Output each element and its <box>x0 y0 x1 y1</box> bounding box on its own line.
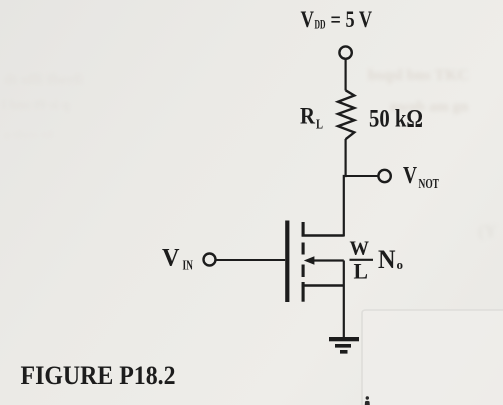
label VNOT <box>403 162 439 192</box>
wire source to ground <box>343 261 345 338</box>
transistor Q1 body arrow <box>304 256 344 264</box>
svg-text:L: L <box>316 118 323 133</box>
svg-text:IN: IN <box>183 258 194 273</box>
svg-text:R: R <box>300 104 315 129</box>
wire VDD terminal to resistor <box>345 59 347 91</box>
ground <box>329 337 359 354</box>
svg-text:l bns t9 si q: l bns t9 si q <box>2 98 70 113</box>
transistor Q1 channel dashes <box>302 222 305 302</box>
label W/L fraction <box>350 238 374 284</box>
svg-text:bsqsl bns TKC: bsqsl bns TKC <box>368 67 469 84</box>
svg-text:L: L <box>354 259 369 284</box>
svg-text:a shew ed: a shew ed <box>4 127 54 141</box>
svg-text:50 kΩ: 50 kΩ <box>369 106 423 133</box>
label VDD = 5 V <box>301 7 373 32</box>
svg-text:FIGURE P18.2: FIGURE P18.2 <box>21 361 176 390</box>
ghost bleed-through text left margin <box>2 72 83 141</box>
stray ink mark bottom <box>365 396 370 405</box>
resistor RL zigzag <box>338 90 354 139</box>
svg-text:= 5 V: = 5 V <box>331 7 373 32</box>
svg-text:(Y: (Y <box>478 221 497 242</box>
svg-text:dt offi Iberfi: dt offi Iberfi <box>4 72 83 88</box>
svg-text:V: V <box>301 7 315 32</box>
wire resistor to drain corner <box>344 139 346 237</box>
svg-text:V: V <box>403 162 417 189</box>
transistor Q1 source stub <box>302 284 344 286</box>
ghost bleed-through text top-right <box>368 67 469 115</box>
svg-text:NOT: NOT <box>419 177 440 192</box>
label No <box>378 245 403 274</box>
svg-text:DD: DD <box>315 17 326 32</box>
transistor Q1 drain stub <box>302 234 344 236</box>
wire to VNOT terminal <box>344 175 379 177</box>
transistor Q1 gate bar <box>285 221 289 303</box>
label RL <box>300 104 323 133</box>
svg-text:N: N <box>378 245 396 274</box>
svg-text:V: V <box>162 245 180 272</box>
ghost figure box bottom right <box>362 310 503 405</box>
terminal circle VDD <box>339 46 351 58</box>
svg-text:o: o <box>397 257 404 272</box>
terminal circle VIN <box>204 254 216 266</box>
label VIN <box>162 245 193 273</box>
wire VIN to gate <box>216 259 286 261</box>
svg-text:W: W <box>350 238 370 260</box>
ghost mark (Y right side <box>478 221 497 242</box>
terminal circle VNOT <box>378 170 390 182</box>
